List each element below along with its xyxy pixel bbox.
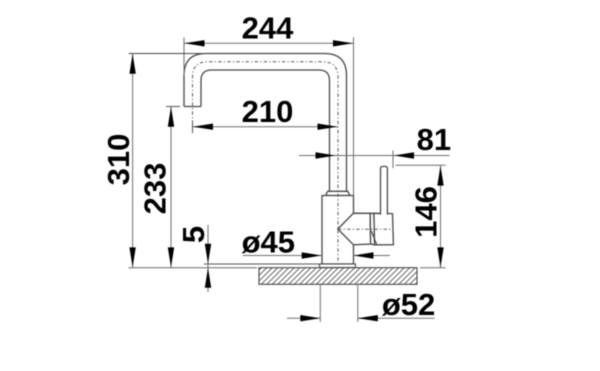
dim 244 arrow left xyxy=(185,40,205,46)
dim 5 arrow up xyxy=(205,268,211,288)
svg-text:81: 81 xyxy=(417,122,451,157)
dim 146 extension top xyxy=(396,164,446,166)
dim o52 ext right xyxy=(357,285,359,323)
dim o45 arrow left-pointing xyxy=(353,252,373,258)
base plate xyxy=(320,264,356,268)
svg-text:210: 210 xyxy=(242,94,294,129)
dim 5 extension (plate top) xyxy=(204,263,320,265)
dim 244 extension left xyxy=(183,38,185,76)
valve ring xyxy=(370,213,374,245)
dim 310 extension top xyxy=(129,53,206,55)
dim 233 arrow bottom xyxy=(168,247,174,267)
dim o52 right leader xyxy=(358,317,435,319)
spout centerline xyxy=(193,62,339,263)
lever cap xyxy=(374,213,394,245)
dim o52 arrow right-pointing xyxy=(300,315,320,321)
dim 310 arrow top xyxy=(129,54,135,74)
dim 146 extension bottom xyxy=(420,267,446,269)
dim 233 arrow top xyxy=(168,107,174,127)
dim 310 line xyxy=(132,54,134,268)
countertop xyxy=(259,268,417,285)
dim 81 arrow left-pointing xyxy=(394,152,414,158)
svg-text:233: 233 xyxy=(138,163,173,215)
body xyxy=(322,196,354,265)
dim o45 right tail xyxy=(353,255,390,257)
dim 210 arrow right xyxy=(318,124,338,130)
collar xyxy=(326,191,349,195)
dim 81 line xyxy=(299,155,450,157)
dim 233 extension top xyxy=(166,106,180,108)
seam line xyxy=(371,231,377,245)
dim o52 left leader xyxy=(287,317,320,319)
dim 5 arrow down xyxy=(205,244,211,264)
dim 146 line xyxy=(440,166,442,268)
dim 210 line xyxy=(193,126,338,128)
svg-text:146: 146 xyxy=(409,186,444,238)
dim 146 arrow bottom xyxy=(437,247,443,267)
dim 146 arrow top xyxy=(437,166,443,186)
joint pentagon xyxy=(338,213,371,245)
countertop top extension xyxy=(129,267,257,269)
dim o52 ext left xyxy=(319,285,321,323)
svg-text:5: 5 xyxy=(176,226,211,243)
svg-text:310: 310 xyxy=(101,134,136,186)
dim 310 arrow bottom xyxy=(129,247,135,267)
svg-text:244: 244 xyxy=(242,11,294,46)
dim 233 line xyxy=(170,107,172,268)
spout tube xyxy=(184,54,347,192)
dim 5 line xyxy=(207,225,209,292)
dim 81 arrow right-pointing xyxy=(316,152,336,158)
dim 244 extension right / body edge extension xyxy=(353,38,355,196)
dim 244 line xyxy=(184,42,353,44)
svg-text:ø52: ø52 xyxy=(382,287,435,322)
dim 210 arrow left xyxy=(193,124,213,130)
dim o45 arrow right-pointing xyxy=(302,252,322,258)
lever rod xyxy=(381,166,388,214)
dim 244 arrow right xyxy=(333,40,353,46)
dim o45 leader xyxy=(243,255,322,257)
dim o52 arrow left-pointing xyxy=(358,315,378,321)
svg-text:ø45: ø45 xyxy=(242,225,295,260)
dim 210 left extension tick xyxy=(192,121,194,134)
joint centerline xyxy=(338,228,394,230)
dim 81 extension xyxy=(392,151,394,169)
